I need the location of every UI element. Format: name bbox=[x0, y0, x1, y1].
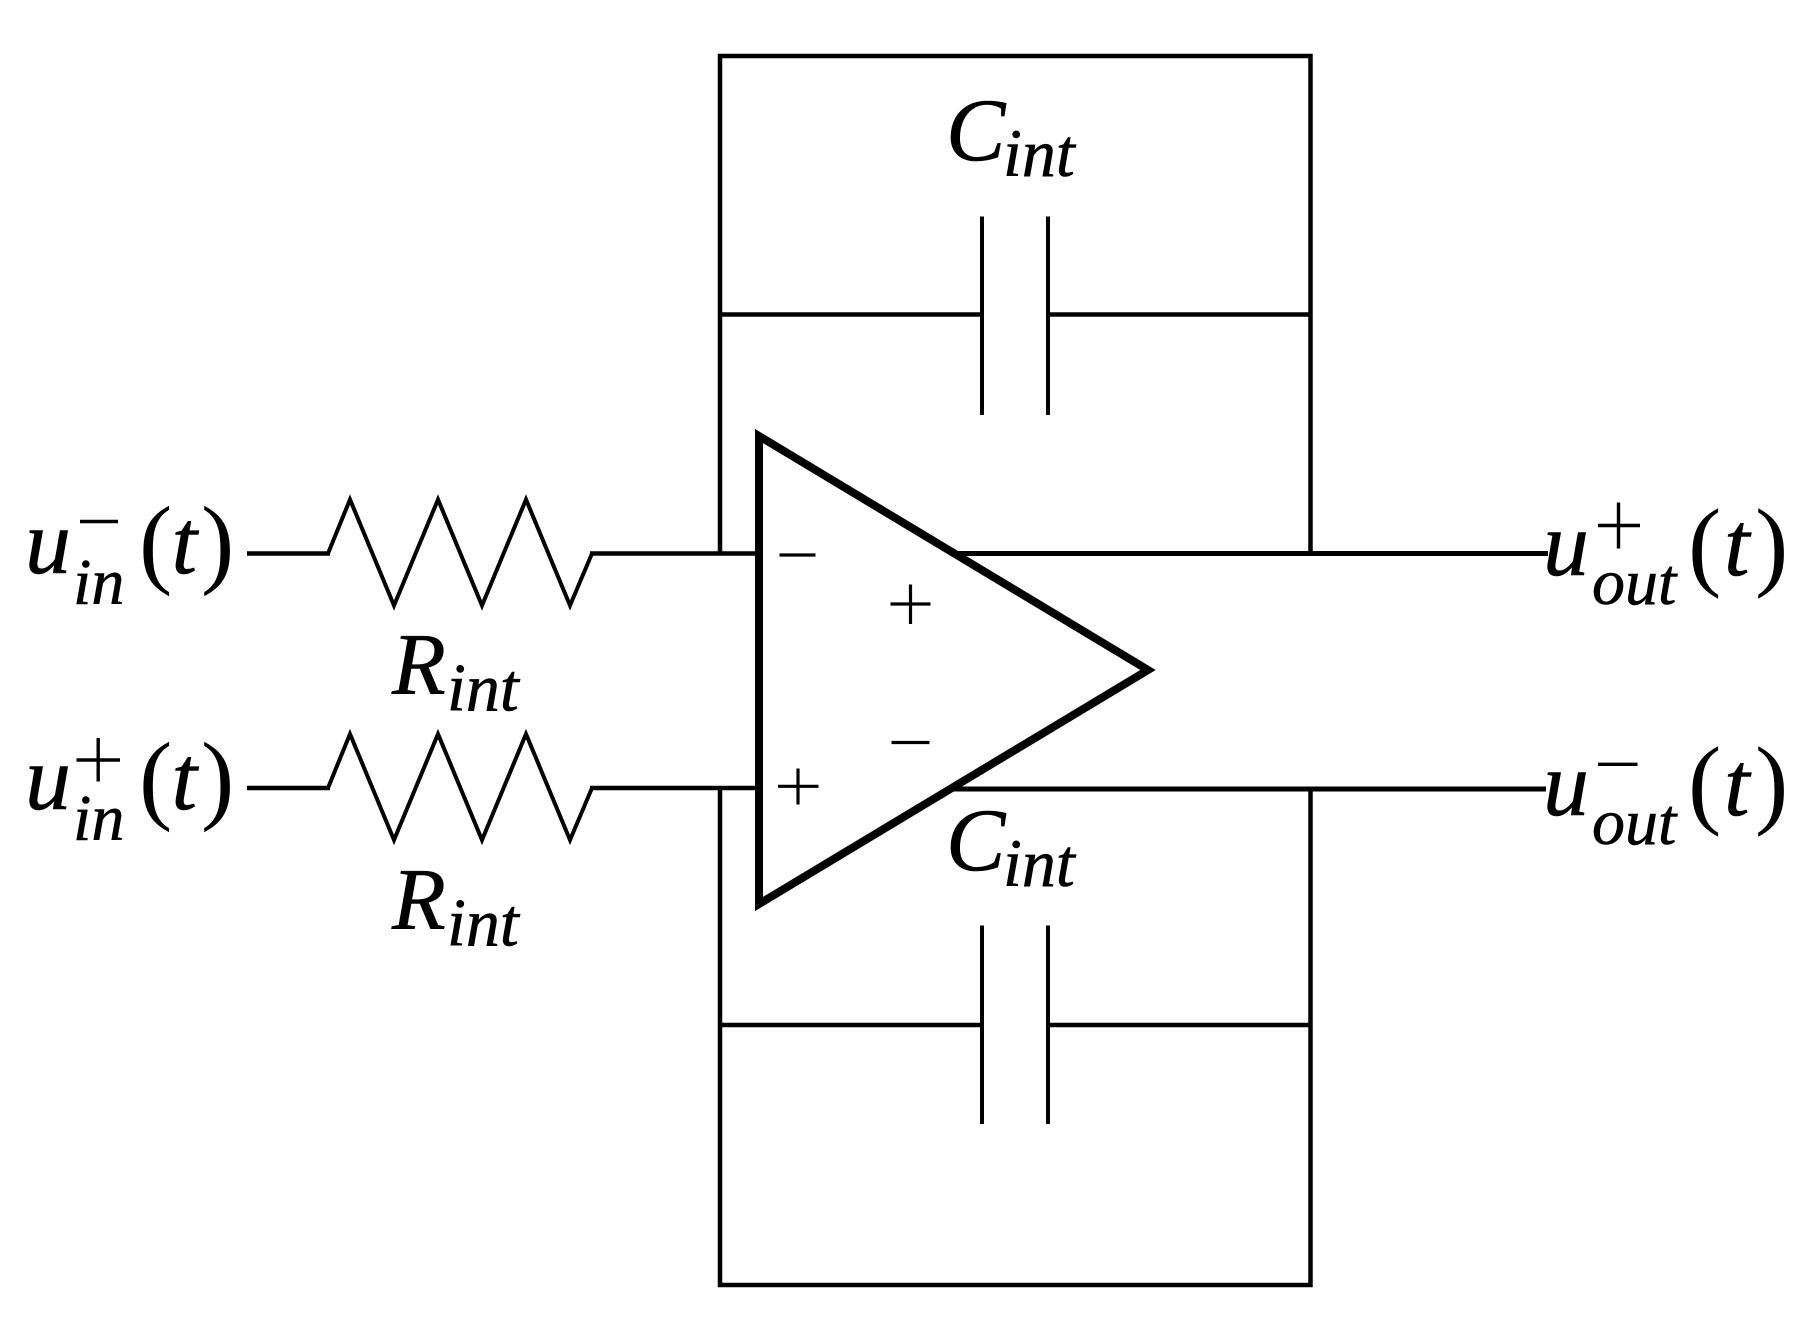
resistor R_int (bottom, non-inverting input) bbox=[328, 734, 592, 840]
wire bottom capacitor left lead bbox=[720, 1023, 982, 1028]
capacitor C_int (top feedback) right plate bbox=[1046, 217, 1050, 416]
capacitor C_int (top feedback) left plate bbox=[980, 217, 984, 416]
svg-text:R: R bbox=[391, 852, 446, 949]
svg-text:t: t bbox=[172, 491, 200, 593]
svg-text:int: int bbox=[447, 885, 521, 961]
op-amp U1 (fully differential) triangle bbox=[759, 436, 1148, 904]
svg-text:int: int bbox=[1003, 115, 1077, 191]
svg-text:C: C bbox=[946, 792, 1007, 890]
svg-text:(: ( bbox=[1688, 727, 1721, 838]
svg-text:R: R bbox=[391, 617, 446, 714]
svg-text:(: ( bbox=[139, 722, 172, 833]
op-amp negative output sign (-) bbox=[892, 741, 930, 744]
svg-text:u: u bbox=[1543, 733, 1589, 835]
label R_int (top resistor) bbox=[391, 617, 521, 726]
capacitor C_int (bottom feedback) left plate bbox=[980, 926, 984, 1125]
svg-text:C: C bbox=[946, 82, 1007, 180]
svg-text:(: ( bbox=[1688, 489, 1721, 600]
wire bottom feedback loop (left vertical, bottom edge, right vertical) bbox=[720, 788, 1311, 1285]
wire top capacitor left lead bbox=[720, 312, 982, 317]
svg-text:): ) bbox=[1755, 489, 1788, 600]
wire bottom capacitor right lead bbox=[1048, 1023, 1311, 1028]
wire from u_in+ to resistor R2 bbox=[247, 786, 330, 791]
capacitor C_int (bottom feedback) right plate bbox=[1046, 926, 1050, 1125]
svg-text:t: t bbox=[172, 727, 200, 829]
wire op-amp + output (top, to u_out+) bbox=[950, 551, 1548, 556]
label u_out^-(t) (node output minus) bbox=[1543, 727, 1788, 860]
label u_in^-(t) (node input minus) bbox=[25, 486, 234, 619]
svg-text:(: ( bbox=[139, 486, 172, 597]
svg-text:): ) bbox=[1755, 727, 1788, 838]
wire top capacitor right lead bbox=[1048, 312, 1311, 317]
wire top feedback loop (left vertical, top edge, right vertical) bbox=[720, 56, 1311, 554]
wire from resistor R1 to op-amp inverting input bbox=[590, 551, 760, 556]
svg-text:t: t bbox=[1724, 493, 1752, 595]
label C_int (top) bbox=[946, 82, 1077, 191]
label u_out^+(t) (node output plus) bbox=[1543, 489, 1788, 620]
svg-text:u: u bbox=[1543, 493, 1589, 595]
label u_in^+(t) (node input plus) bbox=[25, 722, 234, 855]
label R_int (bottom resistor) bbox=[391, 852, 521, 961]
svg-text:): ) bbox=[201, 722, 234, 833]
svg-text:u: u bbox=[25, 491, 71, 593]
svg-text:out: out bbox=[1592, 546, 1678, 619]
wire op-amp - output (bottom, to u_out-) bbox=[952, 787, 1546, 792]
svg-text:in: in bbox=[73, 546, 124, 619]
op-amp inverting input sign (-) bbox=[780, 553, 816, 556]
svg-text:): ) bbox=[201, 486, 234, 597]
wire from u_in- to resistor R1 bbox=[247, 551, 330, 556]
svg-text:out: out bbox=[1592, 786, 1678, 859]
svg-text:t: t bbox=[1724, 733, 1752, 835]
resistor R_int (top, inverting input) bbox=[328, 500, 592, 606]
op-amp non-inverting input sign (+) bbox=[778, 769, 819, 805]
op-amp positive output sign (+) bbox=[891, 585, 931, 625]
svg-text:int: int bbox=[1003, 825, 1077, 901]
svg-text:int: int bbox=[447, 650, 521, 726]
svg-text:in: in bbox=[73, 782, 124, 855]
wire from resistor R2 to op-amp non-inverting input bbox=[590, 786, 760, 791]
label C_int (bottom) bbox=[946, 792, 1077, 901]
svg-text:u: u bbox=[25, 727, 71, 829]
